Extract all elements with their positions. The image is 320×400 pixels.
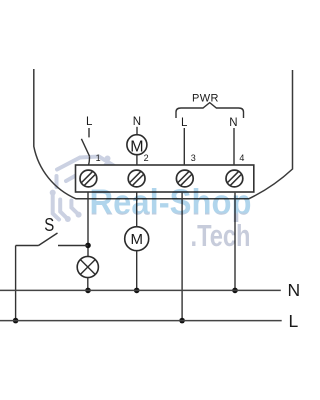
wire: motor M lower down to N line [136,251,138,291]
switch S blade [39,233,58,246]
screw terminal 2 [128,170,145,187]
node: motor to N line [134,288,140,294]
wire: lead from L down to switch [88,128,90,137]
node: lamp to N line [85,288,91,294]
svg-text:3: 3 [191,153,196,163]
watermark logo circuit traces [50,156,129,223]
wire: switch left lead [16,245,39,247]
screw terminal 3 [176,170,193,187]
wire: terminal 4 down to N line [234,193,236,291]
svg-text:M: M [130,138,143,155]
svg-text:N: N [288,280,301,300]
wire: switch right lead to junction [58,245,88,247]
PWR brace [176,103,244,118]
screw terminal 1 [80,170,97,187]
lamp E1 [77,256,98,277]
wire: switch down to L line [15,246,17,321]
svg-text:4: 4 [239,153,244,163]
wire: terminal 2 down to motor M lower [136,192,138,227]
wire: lead from N down to motor M upper [136,127,138,135]
wire: motor M upper to terminal 2 [136,155,138,165]
screw terminal 4 [226,170,243,187]
motor M upper [127,135,147,156]
wire: PWR L lead down to terminal 3 [183,128,185,165]
wire: terminal 3 down to L line [181,193,183,321]
wire: lamp down to N line [87,278,89,291]
svg-text:Real-Shop: Real-Shop [90,182,252,223]
svg-text:L: L [289,311,299,331]
wire: blade bottom into terminal 1 [89,156,90,165]
node: switch to L line [13,318,19,324]
wire: terminal 1 down to lamp junction [87,192,89,256]
svg-text:2: 2 [144,153,149,163]
wire: PWR N lead down to terminal 4 [233,128,235,165]
wire: N supply line [0,289,281,291]
svg-text:S: S [44,214,54,235]
terminal block [76,165,254,192]
switch blade above terminal 1 [81,139,89,156]
motor M lower [125,227,149,251]
svg-text:M: M [130,231,143,248]
svg-text:L: L [86,116,93,128]
svg-text:N: N [133,116,141,128]
svg-text:L: L [181,117,188,129]
node: terminal 4 to N line [232,288,238,294]
wire: L supply line [0,320,282,322]
svg-text:PWR: PWR [192,93,219,105]
enclosure outline [34,69,293,199]
node: junction switch/lamp [85,243,91,249]
svg-text:N: N [229,117,237,129]
svg-text:.Tech: .Tech [191,218,251,253]
node: terminal 3 to L line [179,318,185,324]
svg-text:1: 1 [96,153,101,163]
